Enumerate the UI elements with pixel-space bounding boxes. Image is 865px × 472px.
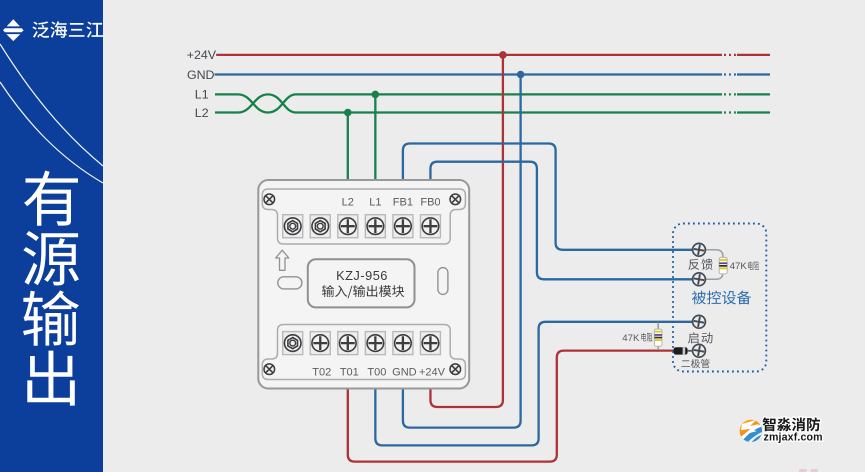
wire start resistor leads	[657, 323, 659, 351]
label 47K resistor right	[748, 261, 759, 270]
terminal device start-	[693, 344, 706, 357]
banner background	[0, 0, 103, 472]
svg-text:T01: T01	[340, 366, 359, 378]
resistor R-start 47K	[654, 329, 662, 346]
watermark brand text	[763, 417, 820, 431]
controlled device dashed enclosure	[673, 224, 766, 372]
terminal top spare-2 (hex)	[310, 215, 330, 238]
terminal bottom GND	[393, 332, 413, 355]
banner title char 源	[23, 231, 79, 285]
terminal device feedback-	[693, 273, 706, 286]
wire L1 drop to module	[374, 94, 376, 180]
label diode	[681, 359, 709, 368]
terminal bottom T00	[365, 332, 385, 355]
wire +24V drop and loop to module terminal	[430, 55, 502, 407]
module left slot	[278, 277, 302, 289]
diode body	[674, 347, 693, 354]
wire GND drop and loop to module terminal	[403, 75, 521, 428]
node L2 junction	[344, 109, 352, 117]
module label plate	[308, 259, 415, 307]
module bottom-left corner screw	[264, 364, 275, 375]
terminal top L2	[338, 215, 358, 238]
wire L2 drop to module	[347, 113, 349, 181]
terminal bottom +24V	[420, 332, 440, 355]
Fanhai Sanjiang diamond logo	[3, 19, 24, 41]
terminal top L1	[365, 215, 385, 238]
svg-text:47K: 47K	[622, 333, 640, 344]
svg-text:+24V: +24V	[187, 48, 217, 62]
terminal bottom spare-3 (hex)	[283, 332, 303, 355]
module right slot	[438, 268, 448, 295]
label feedback	[688, 259, 712, 270]
svg-text:FB1: FB1	[393, 197, 413, 209]
wire L1 loop bus with twisted pair	[215, 94, 770, 112]
module top-left corner screw	[264, 194, 275, 205]
terminal device feedback+	[693, 243, 706, 256]
terminal bottom T02	[310, 332, 330, 355]
wire feedback resistor link	[705, 250, 723, 279]
node GND junction	[517, 71, 525, 79]
module bottom terminal panel	[262, 325, 465, 380]
banner title char 输	[23, 290, 79, 345]
svg-text:FB0: FB0	[420, 197, 440, 209]
svg-text:+24V: +24V	[419, 366, 446, 378]
banner title char 有	[24, 171, 78, 226]
resistor R-feedback 47K	[719, 257, 727, 274]
terminal bottom T01	[338, 332, 358, 355]
terminal top spare-1 (hex)	[283, 215, 303, 238]
terminal labels bottom row	[312, 366, 445, 378]
wire T00 loop to start terminal	[375, 322, 692, 446]
wire FB0 to feedback terminal 2	[430, 162, 692, 280]
svg-text:L2: L2	[195, 106, 209, 120]
svg-text:T02: T02	[312, 366, 331, 378]
terminal top FB0	[420, 215, 440, 238]
wire T01 loop to diode	[348, 351, 674, 462]
node +24V junction	[499, 51, 507, 59]
banner arc decorations	[0, 44, 103, 183]
svg-text:L1: L1	[369, 197, 381, 209]
module KZJ-956 body	[258, 180, 469, 389]
svg-text:GND: GND	[187, 68, 215, 82]
label start	[688, 332, 713, 343]
terminal top FB1	[393, 215, 413, 238]
wire FB1 to feedback terminal 1	[403, 144, 692, 250]
wire GND bus	[215, 73, 771, 75]
svg-text:zmjaxf.com: zmjaxf.com	[764, 432, 823, 444]
svg-text:L2: L2	[342, 197, 354, 209]
label 47K resistor left	[641, 333, 652, 342]
watermark logo icon	[735, 420, 764, 450]
wire +24V power bus	[216, 54, 770, 56]
terminal device start+	[693, 315, 706, 328]
svg-text:47K: 47K	[730, 261, 748, 272]
svg-text:T00: T00	[367, 366, 386, 378]
svg-text:KZJ-956: KZJ-956	[336, 268, 388, 283]
bus labels	[187, 48, 217, 120]
module subtitle text	[322, 285, 404, 298]
svg-text:L1: L1	[195, 88, 209, 102]
label controlled device	[692, 291, 751, 305]
module top-right corner screw	[450, 194, 461, 205]
module top terminal panel	[262, 189, 465, 244]
wire L2 loop bus with twisted pair	[215, 94, 770, 112]
faint pink watermark remnant	[799, 469, 818, 472]
brand name text	[32, 21, 103, 38]
terminal labels top row	[342, 197, 441, 209]
module bottom-right corner screw	[450, 364, 461, 375]
svg-text:GND: GND	[392, 366, 417, 378]
node L1 junction	[372, 91, 380, 99]
module orientation arrow	[276, 250, 289, 270]
banner title char 出	[27, 351, 75, 406]
